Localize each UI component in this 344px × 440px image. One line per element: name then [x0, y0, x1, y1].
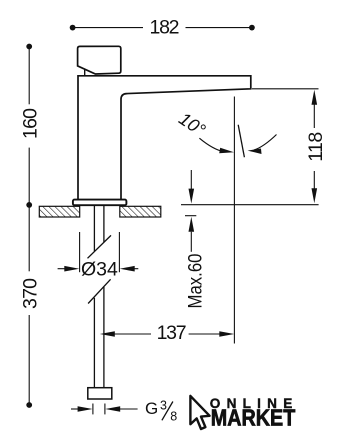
inlet fitting G3/8	[88, 388, 112, 399]
water stream centerline	[233, 97, 235, 344]
G3/8 extension ticks	[93, 404, 105, 415]
counter hatch left	[39, 206, 79, 217]
svg-text:370: 370	[19, 278, 41, 309]
svg-text:G: G	[145, 399, 158, 418]
supply pipe right upper	[103, 206, 105, 243]
faucet handle	[78, 46, 121, 75]
svg-text:10°: 10°	[175, 108, 209, 140]
svg-text:MARKET: MARKET	[211, 405, 295, 431]
supply pipe right lower	[103, 287, 105, 388]
angle arc right arrow	[248, 135, 277, 155]
counter bottom tick	[185, 215, 196, 217]
angle arc left arrow	[199, 138, 234, 153]
118 extension line top	[252, 88, 319, 90]
svg-text:160: 160	[19, 108, 41, 139]
G3/8 text	[145, 398, 177, 423]
pipe break slash upper	[88, 235, 112, 258]
dimension 137 line	[100, 331, 235, 337]
svg-text:137: 137	[157, 322, 187, 344]
left dimension line 160/370	[26, 44, 32, 408]
dimension 182 line	[70, 25, 255, 31]
diameter 34 extension lines	[80, 232, 120, 272]
counter hatch right	[120, 206, 161, 217]
svg-text:118: 118	[305, 132, 327, 162]
faucet body and spout	[78, 76, 251, 200]
counter level extension line	[181, 204, 319, 206]
supply pipe left upper	[93, 206, 95, 252]
G3/8 arrows	[71, 406, 138, 412]
tilted stream line 10deg	[238, 125, 244, 157]
dimension 118 line	[312, 90, 318, 204]
svg-text:3: 3	[160, 398, 167, 412]
svg-text:Max.60: Max.60	[186, 254, 207, 309]
logo cursor icon	[190, 396, 209, 429]
diameter 34 arrows	[58, 266, 139, 272]
Max.60 upper arrow	[189, 170, 195, 204]
svg-text:8: 8	[170, 410, 177, 424]
base flange	[73, 200, 127, 206]
svg-text:Ø34: Ø34	[81, 258, 118, 280]
Max.60 lower arrow	[189, 217, 195, 252]
pipe break slash lower	[88, 279, 111, 303]
svg-text:182: 182	[150, 17, 180, 39]
supply pipe left lower	[93, 298, 95, 388]
